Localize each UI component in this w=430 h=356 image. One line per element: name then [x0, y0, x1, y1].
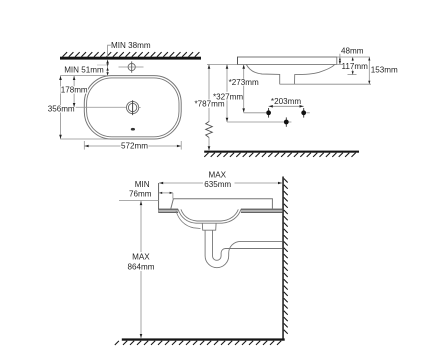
svg-text:117mm: 117mm [342, 62, 369, 71]
dimension 153mm [368, 57, 398, 84]
supply connection dots [266, 108, 306, 118]
sink right edge (side) [336, 57, 338, 65]
label MIN 51mm [64, 65, 107, 74]
dimension *273mm [229, 65, 259, 113]
dimension 117mm [342, 57, 369, 75]
dimension *203mm [269, 97, 304, 108]
rim top extension to right dims [337, 56, 370, 58]
sink inner rim (plan oval) [87, 78, 179, 137]
label MIN 38mm with leader [108, 41, 151, 57]
drain flange [202, 223, 216, 230]
dimension MAX 864mm [128, 201, 155, 338]
extension lines (plan) [60, 76, 181, 150]
drain (plan) [127, 100, 141, 115]
svg-text:356mm: 356mm [48, 104, 75, 113]
dimension 48mm [339, 46, 364, 64]
leader line for 76mm [119, 199, 159, 201]
svg-text:MAX: MAX [132, 252, 150, 261]
supply centerline [244, 112, 310, 114]
svg-text:635mm: 635mm [204, 180, 231, 189]
svg-text:*273mm: *273mm [229, 78, 259, 87]
deck underside line + extensions [207, 63, 342, 65]
vessel sink above counter (bottom view) [171, 199, 273, 209]
counter slab left edge / extension [158, 183, 160, 213]
wall (plan view, hatched) [60, 52, 201, 60]
svg-text:*327mm: *327mm [213, 92, 243, 101]
svg-text:76mm: 76mm [129, 189, 152, 198]
dimension MAX 635mm [159, 171, 282, 190]
counter slab (gray, hatch-filled) [159, 209, 283, 213]
svg-text:153mm: 153mm [371, 66, 398, 75]
svg-text:MIN: MIN [135, 180, 150, 189]
dimension MIN 76 ticks [159, 192, 173, 199]
svg-text:MIN 38mm: MIN 38mm [111, 41, 151, 50]
sink rim top line (side view) [238, 56, 337, 58]
svg-text:48mm: 48mm [341, 46, 364, 55]
svg-text:MIN 51mm: MIN 51mm [64, 65, 104, 74]
dimension 356mm [47, 76, 76, 139]
dimension 572mm [84, 141, 181, 150]
sink left edge (side) [237, 57, 239, 65]
svg-text:572mm: 572mm [121, 141, 148, 150]
svg-text:864mm: 864mm [128, 262, 155, 271]
wall (bottom view, hatched) [282, 177, 287, 339]
overflow channel line (left of bowl) [176, 211, 201, 229]
label MIN 76mm [129, 180, 152, 198]
drain centerline + dot [227, 117, 291, 126]
svg-text:178mm: 178mm [61, 86, 88, 95]
floor (side view, hatched) [204, 151, 359, 157]
svg-text:MAX: MAX [209, 171, 227, 180]
bowl inner wall [181, 209, 238, 221]
dimension line MIN 38 / MIN 51 vertical [106, 60, 108, 76]
dimension 178mm [61, 76, 89, 108]
floor (bottom view, hatched) [115, 338, 285, 345]
sink outer rim (plan oval) [84, 76, 181, 139]
faucet hole (plan) [119, 61, 144, 72]
P-trap inner wall [213, 230, 283, 260]
dimension *327mm [213, 65, 243, 122]
dimension *787mm with break symbol [195, 65, 225, 151]
svg-text:*203mm: *203mm [271, 97, 301, 106]
overflow slot (plan) [131, 128, 135, 131]
P-trap outer wall [205, 230, 282, 267]
bowl below counter: outer wall [178, 209, 241, 223]
basin interior profile (side) [246, 65, 334, 85]
drain recess bottom + 153 extension line [280, 83, 371, 85]
